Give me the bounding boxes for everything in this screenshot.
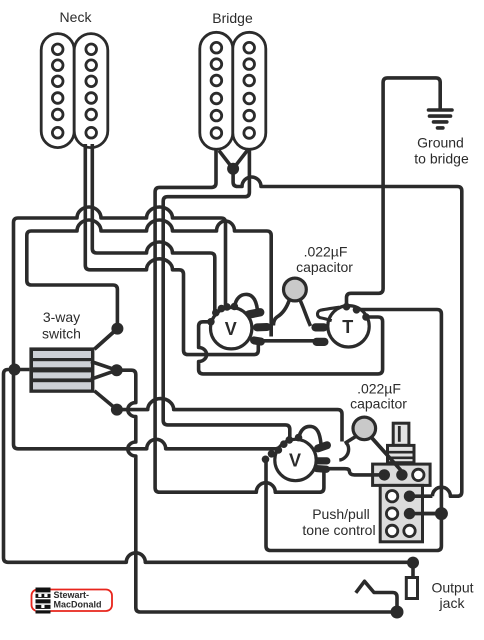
node: output jack sleeve	[391, 606, 404, 619]
pot V2 bent lug2 hook (white tube)	[339, 443, 348, 461]
node: output jack tip	[407, 557, 419, 569]
svg-text:T: T	[342, 317, 353, 337]
pot T1 (tone)	[328, 306, 369, 347]
wire C: neck lead right to upper V casing	[92, 144, 215, 311]
node: push/pull row2 junction	[435, 507, 448, 520]
svg-text:Ground: Ground	[417, 135, 464, 151]
wire: T casing to push/pull row2 and lower V casing	[266, 310, 441, 551]
svg-text:jack: jack	[439, 595, 466, 611]
pot V2 bent lug1 arc	[299, 426, 321, 444]
wire: switch common to output jack hot bus	[4, 370, 414, 563]
logo Stewart-MacDonald mark	[36, 588, 51, 614]
pot V2 lugs	[313, 440, 332, 473]
wire stub: row1 lug	[410, 494, 433, 498]
wire stub: lug3 feed onto plate c1	[372, 473, 384, 477]
wire: upper V casing ground link to T casing	[199, 317, 383, 374]
svg-text:3-way: 3-way	[43, 309, 80, 325]
pot V1 casing solder dots	[207, 303, 238, 326]
pot T1 bent lug1 loop	[317, 307, 339, 320]
output jack	[406, 578, 417, 599]
push/pull pot collar	[387, 445, 415, 462]
wire D: neck lead left to upper V lug3 riser	[85, 144, 258, 355]
svg-text:capacitor: capacitor	[350, 396, 407, 412]
push/pull pot shaft	[393, 423, 409, 445]
wire: bridge series link V junction	[219, 151, 247, 169]
svg-text:Bridge: Bridge	[212, 10, 253, 26]
pot V1 lugs	[244, 307, 271, 346]
wire: upper V lug3 to T lug3	[259, 339, 316, 343]
ground symbol (Ground to bridge)	[429, 110, 453, 128]
wire: push/pull row2 stub	[424, 512, 441, 516]
logo Stewart-MacDonald frame	[32, 590, 113, 612]
svg-text:to bridge: to bridge	[414, 151, 469, 167]
wire: switch middle terminal down to lower bus	[117, 370, 397, 612]
node: switch top terminal	[111, 323, 123, 335]
svg-text:Output: Output	[431, 580, 473, 596]
pickup Bridge (humbucker)	[200, 32, 266, 149]
svg-text:.022µF: .022µF	[304, 244, 348, 260]
wire stub: row2 lug	[410, 512, 442, 516]
pickup Neck (humbucker)	[41, 34, 108, 148]
svg-text:V: V	[289, 451, 301, 471]
svg-text:Neck: Neck	[60, 9, 93, 25]
pot V1 bent lug1 arc	[235, 294, 258, 310]
push/pull switch body	[380, 485, 422, 541]
pot T1 casing solder dots	[343, 303, 370, 321]
wire: series link to push/pull row1 via right side	[233, 169, 462, 496]
wire: lower V lug3 to push/pull plate	[327, 469, 374, 475]
pot V2 casing solder dots	[262, 434, 303, 463]
switch SW1 top prong	[94, 329, 117, 350]
wire B: upper V lug2 feed from switch top terminal	[27, 220, 271, 349]
svg-text:tone control: tone control	[302, 522, 375, 538]
svg-text:MacDonald: MacDonald	[54, 599, 102, 609]
pot T1 lugs	[311, 323, 328, 346]
wire: ground symbol down to T casing	[347, 78, 441, 307]
node: bridge series link	[227, 163, 239, 175]
wire A: neck hot bus from switch area up over pickup leads to upper V casing	[14, 207, 279, 450]
wire: bridge coil start to lower V lug3 riser	[155, 148, 324, 492]
wire stub: lug2 feed poke below lug	[269, 330, 273, 337]
svg-text:switch: switch	[42, 326, 81, 342]
node: switch bottom terminal	[111, 404, 123, 416]
svg-text:capacitor: capacitor	[296, 259, 353, 275]
pot V1 (volume)	[211, 308, 252, 349]
switch SW1 bottom prong	[94, 391, 117, 410]
capacitor C2 legs	[345, 436, 357, 443]
wire: bridge coil finish to lower V casing	[163, 148, 290, 438]
wire: jack tip lead	[411, 563, 415, 578]
pot V2 (volume)	[275, 439, 316, 480]
svg-text:.022µF: .022µF	[357, 381, 401, 397]
node: wire A to switch junction	[9, 364, 21, 376]
wire: switch bottom terminal to lower V lug2 junction	[117, 399, 342, 442]
node: switch middle terminal	[111, 364, 123, 376]
wire stub: cap2 leg over collar and plate to c2	[372, 438, 403, 472]
push/pull pot base plate	[373, 464, 431, 485]
wire: output jack sleeve pigtail	[356, 581, 397, 612]
capacitor C1 legs	[273, 300, 289, 326]
capacitor C1	[284, 278, 307, 301]
svg-text:Push/pull: Push/pull	[312, 506, 370, 522]
svg-text:V: V	[225, 319, 237, 339]
switch SW1 middle prongs	[91, 362, 117, 380]
capacitor C2	[353, 417, 376, 440]
switch SW1 (3-way) body	[29, 347, 94, 392]
